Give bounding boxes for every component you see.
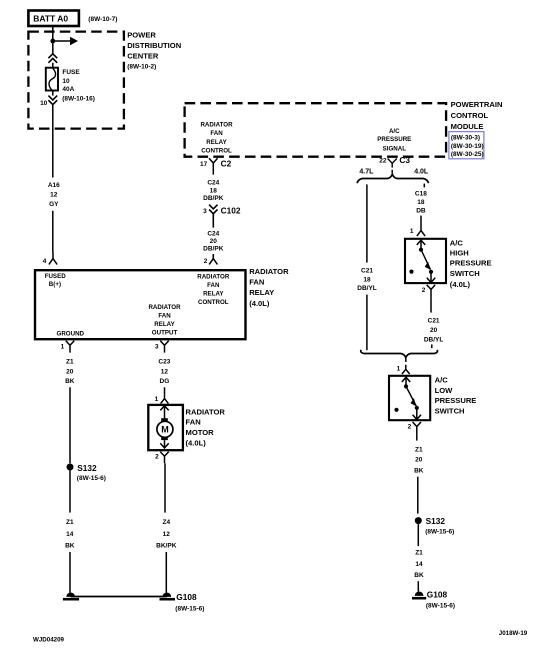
wire label A16 12 GY bbox=[48, 182, 60, 208]
wire label C24 18 DB/PK bbox=[203, 180, 224, 203]
svg-text:Z1: Z1 bbox=[66, 519, 74, 526]
svg-text:RADIATOR: RADIATOR bbox=[200, 122, 233, 129]
svg-text:(4.0L): (4.0L) bbox=[186, 439, 207, 448]
label RADIATOR FAN MOTOR (4.0L) bbox=[186, 407, 226, 447]
switch exit arrow bbox=[413, 408, 421, 420]
label A/C HIGH PRESSURE SWITCH (4.0L) bbox=[450, 238, 492, 289]
svg-text:C3: C3 bbox=[399, 155, 410, 165]
wire below low pressure switch bbox=[416, 435, 418, 441]
label A/C LOW PRESSURE SWITCH bbox=[435, 376, 477, 416]
wire label C23 12 DG bbox=[158, 358, 170, 385]
motor exit arrow bbox=[160, 440, 168, 448]
references 8W-30 bbox=[451, 134, 484, 158]
wire below high pressure switch bbox=[430, 298, 432, 313]
svg-text:10: 10 bbox=[40, 100, 48, 107]
svg-text:1: 1 bbox=[61, 343, 65, 350]
switch contact (bottom) bbox=[415, 406, 419, 410]
svg-text:SWITCH: SWITCH bbox=[450, 269, 480, 278]
svg-text:(8W-15-6): (8W-15-6) bbox=[425, 528, 454, 535]
wire stub above merge bbox=[431, 344, 433, 348]
label RADIATOR FAN RELAY (4.0L) bbox=[249, 267, 289, 308]
svg-text:G108: G108 bbox=[176, 592, 197, 602]
Power Distribution Center dashed box bbox=[28, 32, 124, 129]
svg-text:LOW: LOW bbox=[435, 386, 454, 395]
wire 4.7L branch lower bbox=[366, 295, 368, 351]
switch blade bbox=[422, 251, 431, 270]
svg-text:20: 20 bbox=[415, 457, 423, 464]
svg-text:OUTPUT: OUTPUT bbox=[152, 330, 178, 337]
svg-text:(8W-15-6): (8W-15-6) bbox=[175, 606, 204, 613]
svg-text:CONTROL: CONTROL bbox=[198, 299, 229, 306]
PCM pin function RADIATOR FAN RELAY CONTROL bbox=[200, 122, 233, 155]
ground G108 stud bbox=[160, 593, 176, 601]
svg-text:Z4: Z4 bbox=[163, 519, 171, 526]
svg-text:MOTOR: MOTOR bbox=[186, 428, 215, 437]
svg-text:A/C: A/C bbox=[450, 238, 464, 247]
svg-text:3: 3 bbox=[155, 343, 159, 350]
svg-text:17: 17 bbox=[200, 161, 208, 168]
svg-text:Z1: Z1 bbox=[66, 358, 74, 365]
wire label Z4 12 BK/PK bbox=[156, 519, 177, 550]
svg-text:S132: S132 bbox=[77, 463, 97, 473]
svg-text:BK: BK bbox=[65, 378, 75, 385]
wire to relay pin 2 bbox=[212, 254, 214, 257]
svg-text:RELAY: RELAY bbox=[203, 291, 224, 298]
svg-text:14: 14 bbox=[415, 561, 423, 568]
svg-text:CONTROL: CONTROL bbox=[201, 147, 232, 154]
svg-text:2: 2 bbox=[408, 424, 412, 431]
pin 3 connector Y bbox=[160, 341, 168, 353]
svg-text:(8W-15-6): (8W-15-6) bbox=[426, 602, 455, 609]
svg-text:FUSE: FUSE bbox=[62, 69, 80, 76]
merge bracket (4.7L / 4.0L join) bbox=[361, 350, 438, 358]
svg-text:CONTROL: CONTROL bbox=[451, 111, 489, 120]
switch blade arrowhead bbox=[411, 398, 417, 406]
wire A16 lower segment bbox=[52, 211, 54, 253]
wire label C18 18 DB bbox=[415, 191, 427, 215]
svg-text:1: 1 bbox=[397, 366, 401, 373]
svg-text:FAN: FAN bbox=[207, 282, 220, 289]
Powertrain Control Module dashed box bbox=[185, 103, 447, 157]
svg-text:PRESSURE: PRESSURE bbox=[450, 259, 492, 268]
svg-text:(8W-30-19): (8W-30-19) bbox=[451, 143, 484, 150]
svg-text:HIGH: HIGH bbox=[450, 249, 469, 258]
pin 2 connector Y bbox=[413, 422, 421, 435]
svg-text:BK/PK: BK/PK bbox=[156, 543, 177, 550]
ground G108 stud (right) bbox=[412, 592, 426, 600]
wire label C21 18 DB/YL bbox=[357, 267, 377, 292]
connector C3 symbol bbox=[388, 159, 397, 168]
relay terminal label RADIATOR FAN RELAY CONTROL bbox=[197, 274, 230, 307]
svg-text:PRESSURE: PRESSURE bbox=[435, 396, 477, 405]
ground stud (left) bbox=[63, 593, 79, 601]
fuse value label bbox=[62, 69, 95, 103]
pin 4 connector (inverted Y) bbox=[49, 253, 57, 265]
wire Z1 to S132 bbox=[417, 477, 419, 514]
svg-text:FUSED: FUSED bbox=[45, 273, 67, 280]
svg-text:2: 2 bbox=[204, 258, 208, 265]
svg-text:BATT A0: BATT A0 bbox=[33, 14, 68, 24]
motor box RADIATOR FAN MOTOR bbox=[148, 405, 183, 450]
wire Z4 to G108 bbox=[165, 552, 167, 593]
svg-text:C18: C18 bbox=[415, 191, 427, 198]
switch blade bbox=[407, 388, 417, 407]
svg-text:MODULE: MODULE bbox=[451, 122, 484, 131]
svg-text:A/C: A/C bbox=[389, 128, 400, 135]
wire stub below C3 bbox=[391, 170, 393, 173]
svg-text:3: 3 bbox=[203, 208, 207, 215]
svg-text:10: 10 bbox=[62, 78, 70, 85]
wire chevron to fuse bbox=[52, 63, 54, 68]
svg-text:PRESSURE: PRESSURE bbox=[377, 136, 411, 143]
switch entry arrow bbox=[417, 240, 425, 249]
svg-text:RELAY: RELAY bbox=[206, 139, 227, 146]
svg-text:1: 1 bbox=[410, 228, 414, 235]
svg-text:DB/YL: DB/YL bbox=[357, 285, 377, 292]
wire Z1 to S132 bbox=[69, 387, 71, 463]
svg-text:1: 1 bbox=[155, 396, 159, 403]
svg-text:(8W-10-16): (8W-10-16) bbox=[62, 96, 95, 103]
hyperlink box (blue) bbox=[449, 132, 484, 159]
svg-text:M: M bbox=[161, 425, 169, 435]
svg-text:DISTRIBUTION: DISTRIBUTION bbox=[127, 41, 181, 50]
wire fuse to chevron bbox=[52, 91, 54, 96]
svg-text:40A: 40A bbox=[62, 86, 74, 93]
connector chevrons (male/female pair, up) bbox=[48, 54, 57, 63]
svg-text:18: 18 bbox=[417, 199, 425, 206]
switch entry arrow bbox=[402, 377, 410, 386]
switch box A/C HIGH PRESSURE SWITCH bbox=[405, 239, 446, 283]
relay box RADIATOR FAN RELAY bbox=[35, 270, 246, 339]
wire Z4 upper bbox=[164, 463, 166, 512]
svg-text:C21: C21 bbox=[361, 267, 373, 274]
pin 2 connector Y bbox=[427, 285, 435, 298]
wire BATT A0 to junction bbox=[52, 26, 54, 53]
svg-text:(8W-10-7): (8W-10-7) bbox=[88, 16, 117, 23]
svg-text:C102: C102 bbox=[221, 206, 241, 216]
fuse FUSE 10 40A bbox=[46, 68, 58, 91]
svg-text:DB/YL: DB/YL bbox=[424, 337, 444, 344]
svg-text:Z1: Z1 bbox=[415, 447, 423, 454]
relay terminal label FUSED B(+) bbox=[45, 273, 67, 288]
svg-text:C21: C21 bbox=[428, 318, 440, 325]
pin 1 connector (inverted Y) bbox=[402, 365, 410, 374]
wire label C21 20 DB/YL bbox=[424, 318, 444, 344]
svg-text:RELAY: RELAY bbox=[154, 321, 175, 328]
wire S132 down bbox=[69, 471, 71, 513]
svg-text:FAN: FAN bbox=[158, 313, 171, 320]
svg-text:18: 18 bbox=[363, 276, 371, 283]
svg-text:20: 20 bbox=[210, 238, 218, 245]
connector chevrons (down) pin 10 bbox=[48, 96, 57, 105]
svg-text:(4.0L): (4.0L) bbox=[249, 299, 270, 308]
wire label Z1 20 BK bbox=[65, 358, 75, 385]
pin 1 connector Y bbox=[66, 341, 74, 353]
wire C18 to high pressure switch bbox=[420, 216, 422, 223]
svg-text:C24: C24 bbox=[207, 180, 219, 187]
switch exit arrow bbox=[427, 272, 435, 283]
svg-text:20: 20 bbox=[66, 369, 74, 376]
svg-text:2: 2 bbox=[155, 454, 159, 461]
svg-text:20: 20 bbox=[430, 327, 438, 334]
wire A16 upper segment bbox=[52, 105, 54, 178]
switch box A/C LOW PRESSURE SWITCH bbox=[389, 376, 430, 420]
svg-text:(8W-30-3): (8W-30-3) bbox=[451, 134, 480, 141]
switch contact (top) bbox=[419, 248, 423, 252]
svg-text:2: 2 bbox=[422, 287, 426, 294]
svg-text:Z1: Z1 bbox=[415, 550, 423, 557]
svg-text:FAN: FAN bbox=[186, 418, 201, 427]
label POWERTRAIN CONTROL MODULE bbox=[451, 100, 503, 131]
svg-text:BK: BK bbox=[414, 467, 424, 474]
svg-text:18: 18 bbox=[210, 187, 218, 194]
wire S132 down bbox=[417, 524, 419, 546]
svg-text:RADIATOR: RADIATOR bbox=[197, 274, 230, 281]
pin 1 connector (inverted Y) bbox=[161, 395, 169, 404]
svg-text:RADIATOR: RADIATOR bbox=[148, 304, 181, 311]
svg-text:A/C: A/C bbox=[435, 376, 449, 385]
wire stub below merge bbox=[405, 358, 407, 362]
motor M1 (radiator fan motor) bbox=[157, 418, 173, 440]
switch contact (bottom) bbox=[429, 270, 433, 274]
switch blade arrowhead bbox=[425, 262, 431, 270]
svg-text:C23: C23 bbox=[158, 358, 170, 365]
svg-text:FAN: FAN bbox=[249, 278, 264, 287]
wire Z1 to G108 bbox=[417, 581, 419, 591]
switch contact (top) bbox=[404, 384, 408, 388]
pin 2 connector Y bbox=[160, 452, 168, 464]
pin 2 connector (inverted Y) bbox=[209, 254, 217, 264]
PCM pin function A/C PRESSURE SIGNAL bbox=[377, 128, 411, 152]
svg-text:GROUND: GROUND bbox=[57, 330, 85, 337]
wire arrow feed to other circuits bbox=[53, 37, 78, 45]
svg-text:4.0L: 4.0L bbox=[414, 169, 429, 176]
motor entry arrow bbox=[160, 406, 168, 419]
svg-text:GY: GY bbox=[49, 201, 59, 208]
label POWER DISTRIBUTION CENTER bbox=[127, 31, 181, 71]
svg-text:CENTER: CENTER bbox=[127, 52, 159, 61]
relay terminal label RADIATOR FAN RELAY OUTPUT bbox=[148, 304, 181, 337]
wire label Z1 14 BK bbox=[65, 519, 75, 550]
svg-text:SIGNAL: SIGNAL bbox=[383, 145, 407, 152]
svg-text:(4.0L): (4.0L) bbox=[450, 280, 471, 289]
svg-text:(8W-15-6): (8W-15-6) bbox=[77, 475, 106, 482]
ground bus wire bbox=[71, 596, 167, 598]
node BATT A0 (battery feed) bbox=[28, 11, 79, 27]
svg-text:(8W-30-25): (8W-30-25) bbox=[451, 151, 484, 158]
svg-text:J018W-19: J018W-19 bbox=[499, 630, 528, 637]
svg-text:BK: BK bbox=[414, 572, 424, 579]
svg-text:12: 12 bbox=[163, 531, 171, 538]
svg-text:4.7L: 4.7L bbox=[359, 169, 374, 176]
wire label C24 20 DB/PK bbox=[203, 230, 224, 252]
svg-text:14: 14 bbox=[66, 531, 74, 538]
svg-text:POWERTRAIN: POWERTRAIN bbox=[451, 100, 503, 109]
svg-text:S132: S132 bbox=[426, 516, 446, 526]
svg-text:DB/PK: DB/PK bbox=[203, 246, 224, 253]
wire 4.7L branch upper bbox=[366, 184, 368, 262]
svg-text:22: 22 bbox=[379, 157, 387, 164]
svg-text:12: 12 bbox=[50, 191, 58, 198]
svg-text:RADIATOR: RADIATOR bbox=[186, 407, 226, 416]
in-line connector C102 (double chevron) bbox=[209, 205, 217, 228]
switch contact (open, left) bbox=[394, 408, 398, 412]
svg-text:4: 4 bbox=[43, 258, 47, 265]
svg-text:DB/PK: DB/PK bbox=[203, 195, 224, 202]
switch contact (open, left) bbox=[409, 270, 413, 274]
wire label Z1 14 BK bbox=[414, 550, 424, 580]
splice S132 bbox=[67, 464, 74, 471]
svg-text:(8W-10-2): (8W-10-2) bbox=[127, 64, 156, 71]
wire label Z1 20 BK bbox=[414, 447, 424, 475]
svg-text:RELAY: RELAY bbox=[249, 288, 274, 297]
svg-text:G108: G108 bbox=[427, 589, 448, 599]
splice S132 (right) bbox=[415, 517, 422, 524]
wire Z1 to ground line bbox=[69, 552, 71, 593]
pin 1 connector (inverted Y) bbox=[417, 222, 425, 236]
svg-text:SWITCH: SWITCH bbox=[435, 406, 465, 415]
svg-text:C2: C2 bbox=[221, 159, 232, 169]
connector C2 symbol bbox=[209, 158, 218, 174]
wire stub 4.0L branch bbox=[423, 184, 425, 188]
svg-text:12: 12 bbox=[161, 369, 169, 376]
svg-text:DB: DB bbox=[416, 208, 426, 215]
svg-text:C24: C24 bbox=[207, 230, 219, 237]
svg-text:FAN: FAN bbox=[210, 130, 223, 137]
svg-text:BK: BK bbox=[65, 543, 75, 550]
junction node (splice in PDC) bbox=[50, 39, 55, 44]
svg-text:RADIATOR: RADIATOR bbox=[249, 267, 289, 276]
splice bracket (4.7L / 4.0L split) bbox=[357, 174, 428, 183]
svg-text:POWER: POWER bbox=[127, 31, 156, 40]
svg-text:B(+): B(+) bbox=[49, 281, 61, 288]
svg-text:DG: DG bbox=[160, 378, 170, 385]
svg-text:WJD04209: WJD04209 bbox=[33, 636, 65, 643]
svg-text:A16: A16 bbox=[48, 182, 60, 189]
wire C23 to motor bbox=[164, 387, 166, 394]
